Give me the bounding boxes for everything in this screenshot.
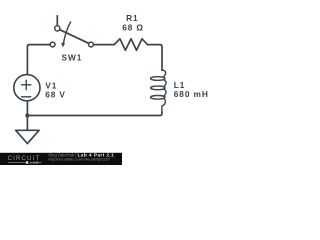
svg-text:680 mH: 680 mH: [174, 89, 209, 99]
svg-text:LAB: LAB: [30, 161, 39, 165]
svg-text:SW1: SW1: [62, 52, 83, 62]
svg-text:68 V: 68 V: [45, 89, 66, 99]
svg-text:http:⁄⁄circuitlab.com⁄c4euab0j: http:⁄⁄circuitlab.com⁄c4euab0jb2z57: [48, 157, 111, 162]
svg-text:68 Ω: 68 Ω: [122, 23, 144, 33]
